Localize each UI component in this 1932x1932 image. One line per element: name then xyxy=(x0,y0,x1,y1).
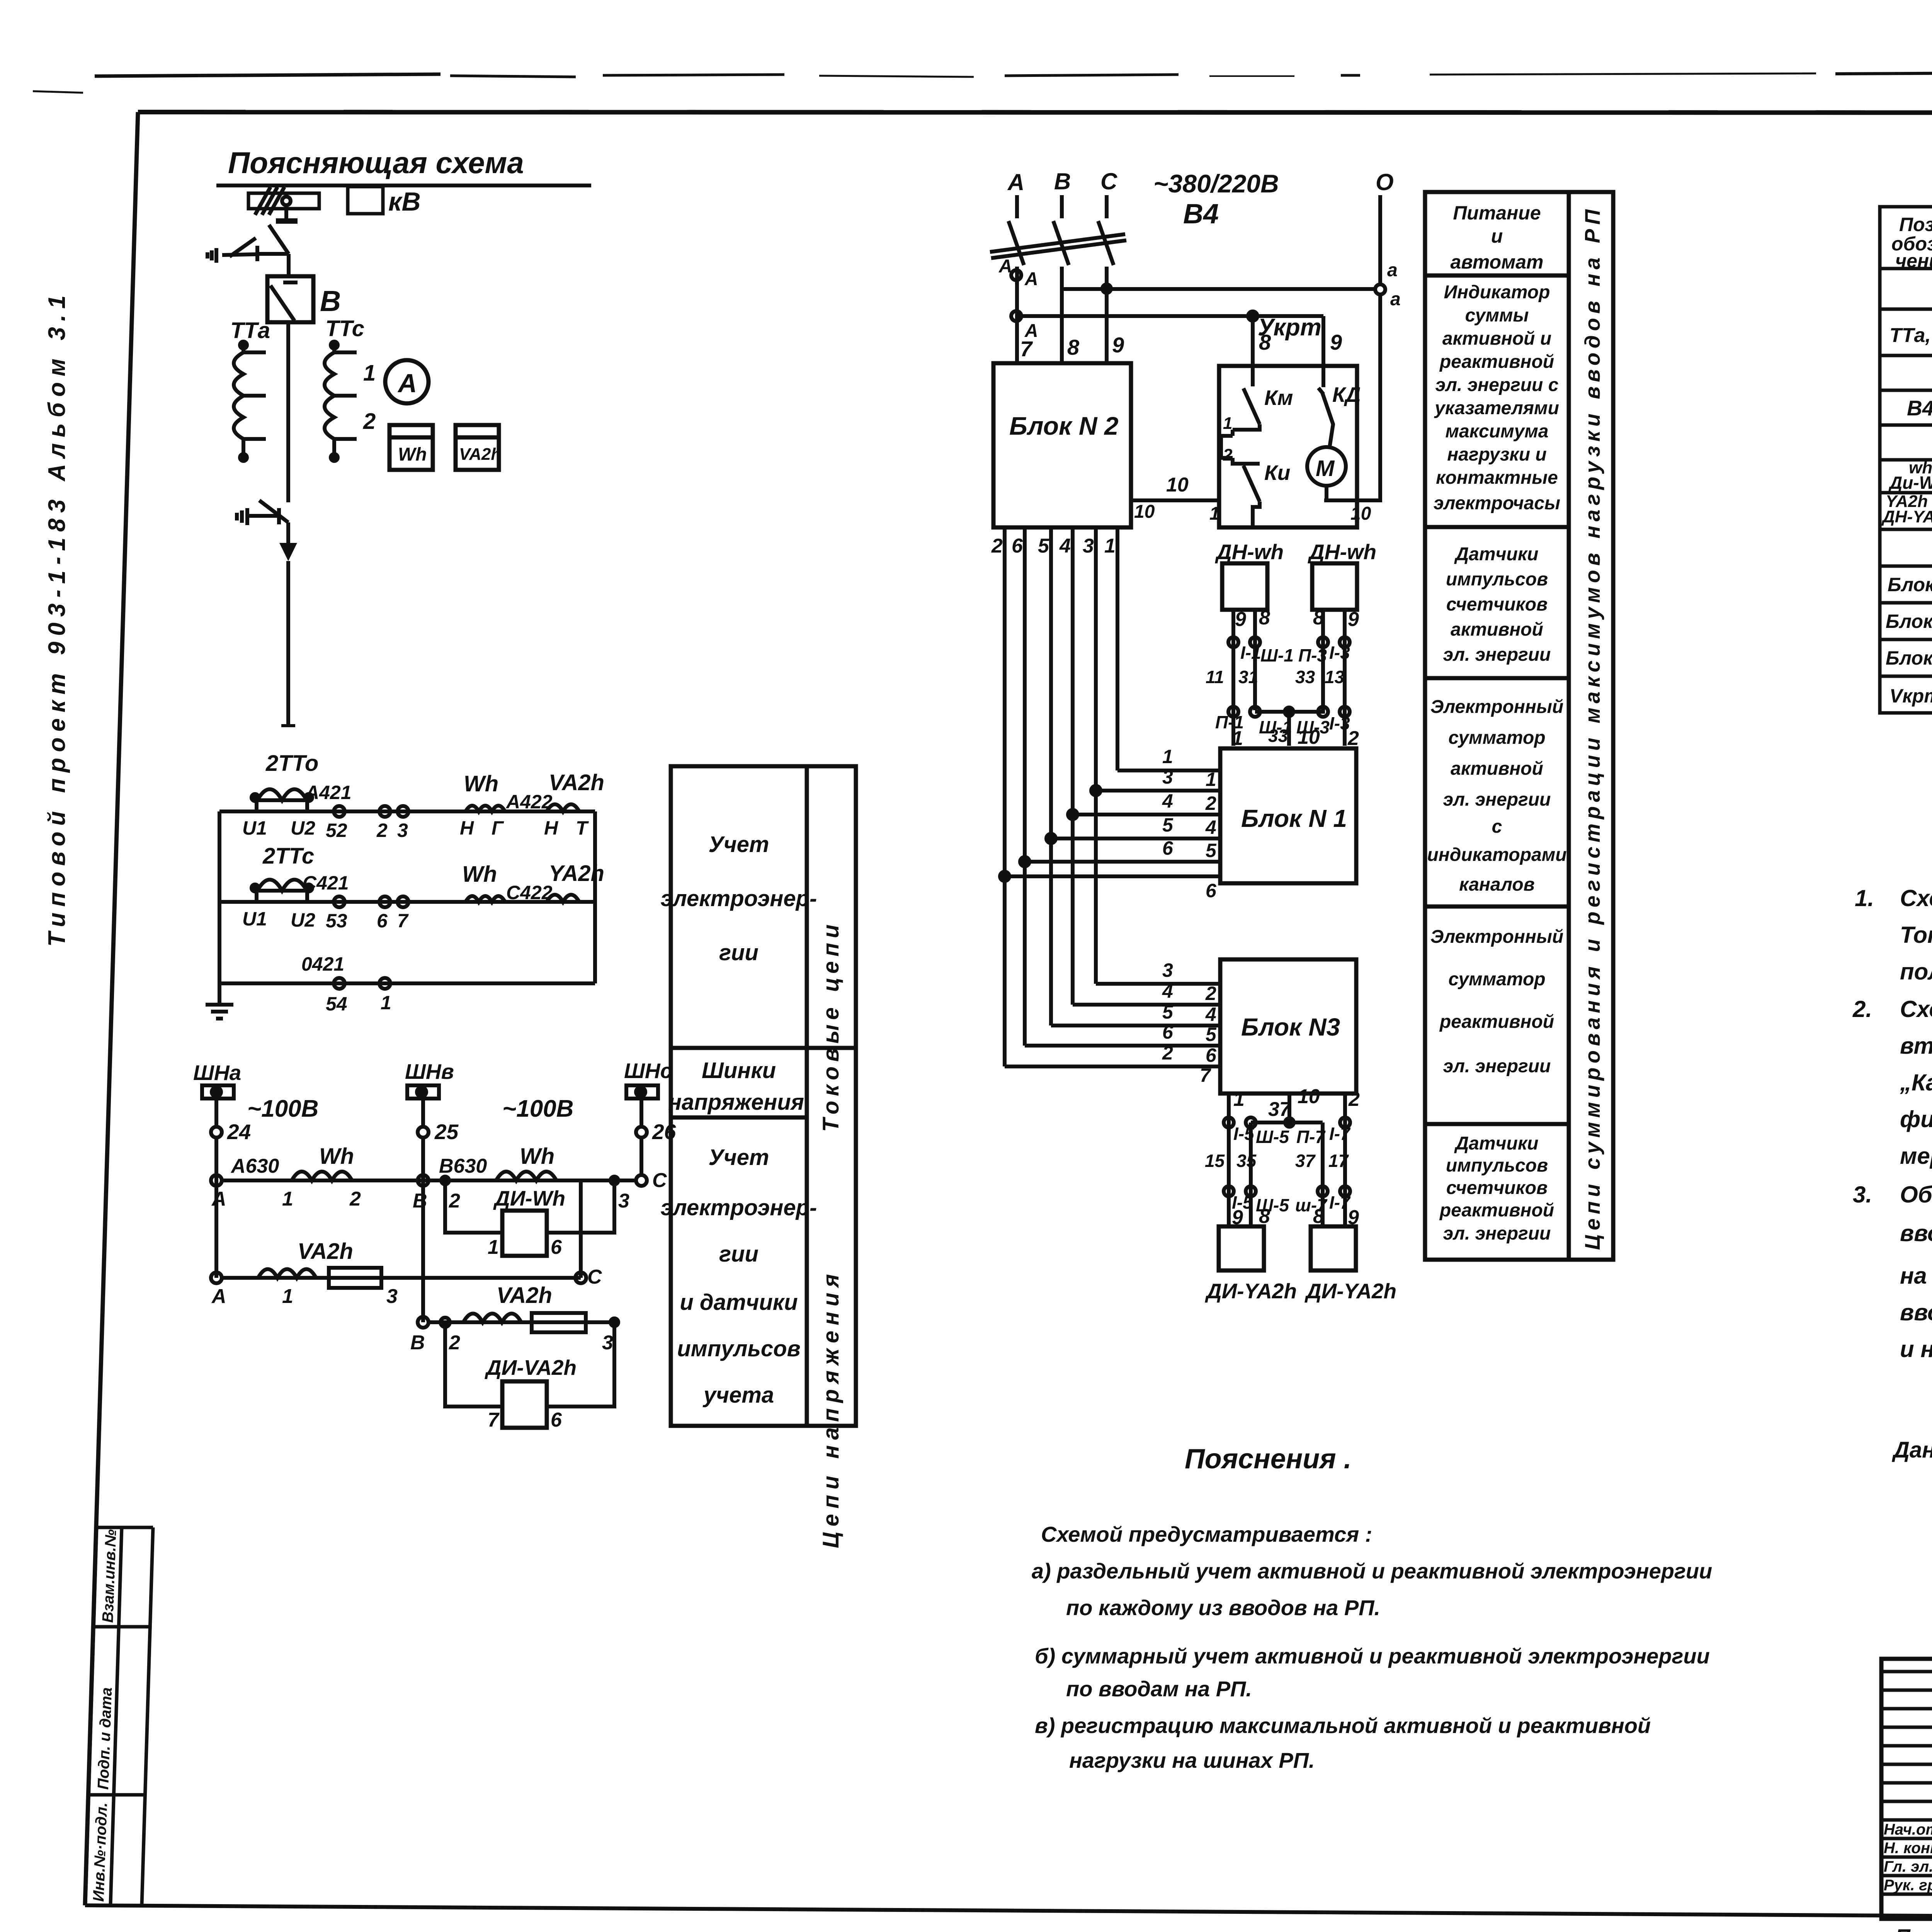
svg-text:счетчиков: счетчиков xyxy=(1446,594,1548,615)
svg-text:1.: 1. xyxy=(1855,885,1874,911)
svg-text:Гл. эл.: Гл. эл. xyxy=(1884,1858,1932,1875)
svg-text:9: 9 xyxy=(1348,608,1359,631)
svg-text:5: 5 xyxy=(1162,814,1173,836)
svg-text:Н: Н xyxy=(544,817,558,839)
svg-text:31: 31 xyxy=(1238,667,1258,687)
svg-text:VA2h: VA2h xyxy=(459,445,501,464)
svg-text:гии: гии xyxy=(719,1242,759,1267)
svg-text:С421: С421 xyxy=(303,872,349,894)
svg-text:Индикатор: Индикатор xyxy=(1444,282,1550,303)
svg-text:VA2h: VA2h xyxy=(549,770,604,795)
svg-text:Датчики: Датчики xyxy=(1454,544,1539,565)
svg-text:1: 1 xyxy=(363,361,376,386)
svg-text:автомат: автомат xyxy=(1451,251,1544,273)
svg-text:ДИ-Wh: ДИ-Wh xyxy=(493,1186,565,1210)
svg-text:6: 6 xyxy=(551,1236,562,1259)
svg-text:Питание: Питание xyxy=(1453,202,1541,224)
svg-text:Инв.№·подл.: Инв.№·подл. xyxy=(90,1802,111,1902)
svg-text:Схема разработана на основа: Схема разработана на основании типовой с… xyxy=(1900,996,1932,1022)
svg-text:6: 6 xyxy=(551,1409,562,1431)
svg-text:VA2h: VA2h xyxy=(298,1239,353,1264)
svg-text:Схемой предусматривается :: Схемой предусматривается : xyxy=(1041,1522,1372,1546)
svg-text:2: 2 xyxy=(1347,727,1359,750)
svg-text:ДН-YA2h: ДН-YA2h xyxy=(1881,507,1932,526)
svg-text:Wh: Wh xyxy=(319,1144,354,1169)
svg-text:ДН-wh: ДН-wh xyxy=(1215,540,1284,564)
svg-text:I-5: I-5 xyxy=(1233,1124,1255,1144)
svg-text:В4: В4 xyxy=(1183,199,1219,230)
svg-text:9: 9 xyxy=(1330,330,1342,354)
svg-text:вводов выводятся дополните: вводов выводятся дополнительно на месте … xyxy=(1900,1220,1932,1246)
svg-text:С: С xyxy=(1100,168,1118,194)
svg-text:по вводам на РП.: по вводам на РП. xyxy=(1066,1677,1252,1701)
svg-text:26: 26 xyxy=(652,1120,676,1144)
svg-text:на ряды зажимов камер (с: на ряды зажимов камер (см. Э-22 ). Остал… xyxy=(1900,1263,1932,1289)
svg-text:сумматор: сумматор xyxy=(1448,969,1545,990)
svg-text:а: а xyxy=(1390,289,1401,310)
svg-text:вторичных соединений камеры: вторичных соединений камеры КСО-272 ката… xyxy=(1900,1033,1932,1059)
svg-text:эл. энергии: эл. энергии xyxy=(1443,1056,1551,1077)
svg-text:Ш-1: Ш-1 xyxy=(1260,645,1294,665)
svg-text:Поз.: Поз. xyxy=(1899,214,1932,235)
svg-text:6: 6 xyxy=(1206,1044,1217,1066)
svg-text:П-7: П-7 xyxy=(1296,1127,1326,1147)
svg-text:Г: Г xyxy=(492,817,504,839)
svg-text:2: 2 xyxy=(449,1332,460,1354)
svg-text:U1: U1 xyxy=(242,908,267,930)
svg-text:37: 37 xyxy=(1268,1098,1291,1121)
svg-text:Т: Т xyxy=(576,817,589,839)
svg-text:С: С xyxy=(587,1266,602,1288)
svg-text:10: 10 xyxy=(1166,474,1189,496)
svg-text:1: 1 xyxy=(282,1285,293,1308)
svg-text:53: 53 xyxy=(326,910,347,932)
svg-text:Электронный: Электронный xyxy=(1430,697,1563,717)
svg-text:9: 9 xyxy=(1235,608,1246,631)
svg-text:3: 3 xyxy=(1083,535,1094,557)
svg-text:1: 1 xyxy=(1209,503,1220,524)
svg-text:11: 11 xyxy=(1206,667,1224,687)
svg-text:2.: 2. xyxy=(1852,996,1872,1022)
svg-text:15: 15 xyxy=(1205,1151,1225,1171)
svg-text:В: В xyxy=(1054,168,1071,194)
svg-text:Vкрт: Vкрт xyxy=(1889,685,1932,707)
svg-text:~100В: ~100В xyxy=(502,1095,573,1122)
svg-text:8: 8 xyxy=(1259,1205,1270,1228)
svg-text:А: А xyxy=(397,369,417,398)
svg-text:активной и: активной и xyxy=(1442,328,1551,349)
svg-text:Взам.инв.№: Взам.инв.№ xyxy=(99,1529,119,1623)
svg-text:2: 2 xyxy=(1162,1042,1173,1064)
svg-text:индикаторами: индикаторами xyxy=(1427,845,1566,865)
svg-text:Обмотки трансформаторов тока: Обмотки трансформаторов тока 2ТТа и 2ТТс… xyxy=(1900,1182,1932,1207)
svg-text:6: 6 xyxy=(1162,837,1173,859)
svg-text:Блок N 2: Блок N 2 xyxy=(1886,611,1932,632)
svg-text:чение: чение xyxy=(1895,250,1932,272)
svg-text:О: О xyxy=(1376,169,1394,195)
svg-text:С: С xyxy=(652,1169,667,1192)
svg-text:1: 1 xyxy=(1162,746,1173,767)
svg-text:8: 8 xyxy=(1313,1205,1324,1228)
svg-text:Блок N 1: Блок N 1 xyxy=(1241,804,1347,832)
svg-text:ШНс: ШНс xyxy=(624,1059,672,1083)
svg-text:17: 17 xyxy=(1328,1151,1349,1171)
svg-text:I-3: I-3 xyxy=(1329,643,1350,663)
svg-text:Пров.: Пров. xyxy=(1895,1925,1932,1932)
svg-text:I-1: I-1 xyxy=(1240,643,1261,663)
svg-text:4: 4 xyxy=(1205,816,1216,838)
svg-text:счетчиков: счетчиков xyxy=(1446,1178,1548,1198)
svg-text:Блок N1: Блок N1 xyxy=(1888,574,1932,595)
svg-text:5: 5 xyxy=(1038,535,1049,557)
svg-text:В: В xyxy=(413,1190,427,1212)
svg-text:YA2h: YA2h xyxy=(549,861,604,886)
svg-text:А421: А421 xyxy=(304,782,352,803)
svg-text:А: А xyxy=(211,1188,226,1210)
svg-text:электроэнер-: электроэнер- xyxy=(661,886,817,911)
svg-text:мерения и суммирования для: мерения и суммирования для учета электри… xyxy=(1900,1143,1932,1169)
svg-text:напряжения: напряжения xyxy=(668,1090,804,1115)
svg-text:2: 2 xyxy=(1205,983,1216,1004)
svg-text:фирмы Ганц Венгерской Наро: фирмы Ганц Венгерской Народной Республик… xyxy=(1900,1106,1932,1132)
svg-text:электрочасы: электрочасы xyxy=(1434,493,1560,514)
svg-text:Н: Н xyxy=(460,817,474,839)
svg-text:2: 2 xyxy=(376,820,388,841)
svg-text:Нач.отд.: Нач.отд. xyxy=(1884,1821,1932,1838)
svg-text:25: 25 xyxy=(434,1120,459,1144)
svg-text:Н. контр.: Н. контр. xyxy=(1884,1840,1932,1857)
svg-text:2: 2 xyxy=(363,409,376,434)
svg-text:Шинки: Шинки xyxy=(702,1058,776,1083)
svg-text:А422: А422 xyxy=(505,791,553,813)
svg-text:реактивной: реактивной xyxy=(1439,352,1554,372)
svg-text:В630: В630 xyxy=(439,1155,487,1177)
svg-text:1: 1 xyxy=(1233,1088,1245,1111)
svg-text:Км: Км xyxy=(1264,386,1293,410)
svg-text:„Камеры сборные серии КСО-27: „Камеры сборные серии КСО-272“ информэле… xyxy=(1900,1070,1932,1095)
svg-text:9: 9 xyxy=(1112,333,1124,357)
svg-text:Учет: Учет xyxy=(709,832,769,857)
svg-text:и датчики: и датчики xyxy=(680,1290,798,1315)
svg-text:5: 5 xyxy=(1206,840,1217,861)
svg-text:импульсов: импульсов xyxy=(1446,569,1548,590)
svg-text:учета: учета xyxy=(702,1383,774,1408)
svg-text:импульсов: импульсов xyxy=(1446,1155,1548,1176)
svg-text:эл. энергии: эл. энергии xyxy=(1443,1223,1551,1244)
svg-text:Учет: Учет xyxy=(709,1145,769,1170)
svg-text:0421: 0421 xyxy=(301,953,344,975)
svg-text:ДН-wh: ДН-wh xyxy=(1308,540,1376,564)
svg-text:указателями: указателями xyxy=(1434,398,1559,418)
svg-text:А: А xyxy=(211,1285,226,1308)
svg-text:54: 54 xyxy=(326,993,347,1015)
svg-text:реактивной: реактивной xyxy=(1439,1200,1554,1221)
svg-text:и на схеме не показаны .: и на схеме не показаны . xyxy=(1900,1336,1932,1362)
svg-text:ДИ-VA2h: ДИ-VA2h xyxy=(485,1355,577,1379)
svg-text:Цепи суммирования и регистр: Цепи суммирования и регистрации максимум… xyxy=(1580,205,1604,1250)
svg-text:33: 33 xyxy=(1295,667,1315,687)
svg-text:Схема составлена для расчетн: Схема составлена для расчетного учета по… xyxy=(1900,885,1932,911)
svg-text:3: 3 xyxy=(397,820,408,841)
svg-text:U1: U1 xyxy=(242,817,267,839)
svg-text:~100В: ~100В xyxy=(247,1095,318,1122)
svg-text:активной: активной xyxy=(1451,759,1543,779)
svg-text:Токовые цепи и цепи напряж: Токовые цепи и цепи напряжения даны для … xyxy=(1900,922,1932,948)
svg-text:контактные: контактные xyxy=(1436,468,1558,488)
svg-text:Датчики: Датчики xyxy=(1454,1133,1539,1154)
svg-text:33: 33 xyxy=(1268,726,1288,746)
svg-text:суммы: суммы xyxy=(1465,305,1529,326)
svg-text:активной: активной xyxy=(1451,619,1543,640)
svg-text:I-7: I-7 xyxy=(1329,1124,1351,1144)
svg-text:А: А xyxy=(998,256,1012,277)
svg-text:U2: U2 xyxy=(291,817,315,839)
svg-text:В4: В4 xyxy=(1907,396,1932,420)
svg-text:А: А xyxy=(1024,269,1038,289)
svg-text:эл. энергии: эл. энергии xyxy=(1443,789,1551,810)
svg-text:5: 5 xyxy=(1206,1024,1217,1045)
svg-text:каналов: каналов xyxy=(1459,874,1534,895)
svg-text:37: 37 xyxy=(1295,1151,1316,1171)
svg-text:4: 4 xyxy=(1162,980,1173,1002)
svg-text:Данные в: Данные в xyxy=(1891,1437,1932,1463)
svg-text:6: 6 xyxy=(1162,1021,1173,1043)
svg-text:3: 3 xyxy=(386,1285,398,1308)
svg-text:а) раздельный учет активной и: а) раздельный учет активной и реактивной… xyxy=(1032,1559,1712,1583)
svg-text:М: М xyxy=(1316,456,1335,481)
svg-text:10: 10 xyxy=(1298,1085,1320,1108)
svg-text:ШНа: ШНа xyxy=(193,1061,241,1085)
svg-text:7: 7 xyxy=(397,910,409,932)
svg-text:~380/220В: ~380/220В xyxy=(1153,169,1279,198)
svg-text:импульсов: импульсов xyxy=(677,1336,800,1361)
svg-text:3: 3 xyxy=(1162,766,1173,788)
svg-text:реактивной: реактивной xyxy=(1439,1012,1554,1032)
svg-text:3: 3 xyxy=(602,1332,613,1354)
svg-text:1: 1 xyxy=(381,992,391,1014)
svg-text:2: 2 xyxy=(1223,446,1233,464)
svg-text:1: 1 xyxy=(488,1236,499,1259)
svg-text:2: 2 xyxy=(1205,793,1216,814)
svg-text:2: 2 xyxy=(1348,1088,1360,1111)
svg-text:24: 24 xyxy=(227,1120,251,1144)
svg-text:максимума: максимума xyxy=(1446,421,1549,442)
svg-text:ТТс: ТТс xyxy=(325,316,364,341)
svg-text:сумматор: сумматор xyxy=(1448,728,1545,748)
svg-text:1: 1 xyxy=(1223,414,1232,433)
svg-text:Подп. и дата: Подп. и дата xyxy=(95,1687,115,1790)
svg-text:Рук. гр.: Рук. гр. xyxy=(1884,1877,1932,1894)
svg-text:1: 1 xyxy=(1104,535,1116,557)
svg-text:Цепи напряжения: Цепи напряжения xyxy=(818,1269,844,1548)
svg-text:ШНв: ШНв xyxy=(405,1060,454,1083)
svg-text:10: 10 xyxy=(1350,503,1371,524)
svg-text:10: 10 xyxy=(1298,726,1320,748)
svg-text:Электронный: Электронный xyxy=(1430,927,1563,947)
svg-text:4: 4 xyxy=(1162,790,1173,812)
svg-text:2: 2 xyxy=(991,535,1003,557)
svg-text:электроэнер-: электроэнер- xyxy=(661,1195,817,1220)
svg-text:А630: А630 xyxy=(230,1155,279,1177)
svg-text:ДИ-YA2h: ДИ-YA2h xyxy=(1304,1279,1396,1303)
svg-text:4: 4 xyxy=(1059,535,1071,557)
svg-text:Пояснения .: Пояснения . xyxy=(1185,1444,1352,1475)
svg-text:Ки: Ки xyxy=(1264,461,1290,485)
svg-text:нагрузки и: нагрузки и xyxy=(1447,444,1546,465)
svg-text:13: 13 xyxy=(1325,667,1345,687)
svg-text:Ш-5: Ш-5 xyxy=(1256,1127,1289,1147)
svg-text:2: 2 xyxy=(349,1188,361,1210)
svg-text:Токовые цепи: Токовые цепи xyxy=(818,920,844,1132)
svg-text:Типовой проект 903-1-183: Типовой проект 903-1-183 Альбом 3.1 xyxy=(44,290,70,947)
svg-text:7: 7 xyxy=(1200,1065,1211,1086)
svg-text:10: 10 xyxy=(1134,502,1155,522)
svg-text:6: 6 xyxy=(1206,880,1217,901)
svg-text:8: 8 xyxy=(1259,607,1270,629)
svg-text:Ди-Wh: Ди-Wh xyxy=(1888,473,1932,493)
svg-text:а: а xyxy=(1387,260,1398,281)
svg-text:вводов сохраняются без из: вводов сохраняются без изменений по заво… xyxy=(1900,1299,1932,1325)
svg-text:ДИ-YA2h: ДИ-YA2h xyxy=(1205,1279,1297,1303)
svg-text:А: А xyxy=(1007,169,1024,195)
svg-text:эл. энергии с: эл. энергии с xyxy=(1435,375,1559,395)
svg-text:полностью соответствует для: полностью соответствует для второго ввод… xyxy=(1900,959,1932,985)
svg-text:Блок N3: Блок N3 xyxy=(1886,647,1932,669)
svg-text:С422: С422 xyxy=(506,882,553,903)
svg-text:6: 6 xyxy=(1012,535,1023,557)
svg-text:2ТТо: 2ТТо xyxy=(265,751,318,776)
svg-text:Поясняющая схема: Поясняющая схема xyxy=(228,146,524,180)
svg-text:с: с xyxy=(1492,816,1502,837)
svg-text:5: 5 xyxy=(1162,1001,1173,1023)
svg-text:8: 8 xyxy=(1313,607,1324,629)
svg-text:П-3: П-3 xyxy=(1298,645,1327,665)
svg-text:2: 2 xyxy=(449,1190,460,1212)
svg-text:7: 7 xyxy=(1020,337,1033,361)
svg-text:Wh: Wh xyxy=(462,862,497,887)
svg-text:ТТа,ТТс: ТТа,ТТс xyxy=(1889,324,1932,347)
svg-text:4: 4 xyxy=(1205,1003,1216,1025)
svg-text:I-3: I-3 xyxy=(1329,713,1350,733)
svg-text:7: 7 xyxy=(488,1409,500,1431)
svg-text:и: и xyxy=(1491,225,1503,247)
svg-text:по каждому из вводов на РП: по каждому из вводов на РП. xyxy=(1066,1595,1380,1620)
svg-text:кВ: кВ xyxy=(388,187,421,216)
svg-text:3: 3 xyxy=(1162,959,1173,981)
svg-text:35: 35 xyxy=(1236,1151,1257,1171)
svg-text:В: В xyxy=(410,1332,425,1354)
svg-text:КД: КД xyxy=(1332,383,1361,406)
svg-text:Wh: Wh xyxy=(398,444,427,465)
svg-text:1: 1 xyxy=(282,1188,293,1210)
svg-text:8: 8 xyxy=(1067,335,1080,359)
svg-text:VA2h: VA2h xyxy=(497,1283,552,1308)
svg-text:в) регистрацию максимальной: в) регистрацию максимальной активной и р… xyxy=(1035,1713,1651,1738)
svg-text:52: 52 xyxy=(326,820,347,841)
svg-text:1: 1 xyxy=(1206,769,1216,790)
svg-text:б) суммарный учет активной и: б) суммарный учет активной и реактивной … xyxy=(1035,1644,1710,1668)
svg-text:Wh: Wh xyxy=(520,1144,554,1169)
svg-text:В: В xyxy=(320,285,341,317)
svg-text:нагрузки на шинах РП.: нагрузки на шинах РП. xyxy=(1069,1748,1315,1772)
svg-text:Wh: Wh xyxy=(464,771,498,796)
svg-text:2ТТс: 2ТТс xyxy=(262,844,314,869)
svg-text:Блок N 2: Блок N 2 xyxy=(1009,412,1119,440)
svg-text:ТТа: ТТа xyxy=(230,318,270,343)
svg-text:U2: U2 xyxy=(291,909,315,931)
svg-text:эл. энергии: эл. энергии xyxy=(1443,645,1551,665)
svg-text:1: 1 xyxy=(1232,727,1243,750)
svg-text:6: 6 xyxy=(377,910,388,932)
svg-text:Блок N3: Блок N3 xyxy=(1241,1013,1340,1041)
svg-text:3.: 3. xyxy=(1853,1182,1872,1207)
svg-text:гии: гии xyxy=(719,940,759,965)
svg-text:3: 3 xyxy=(618,1190,629,1212)
svg-text:Укрт: Укрт xyxy=(1258,314,1321,341)
